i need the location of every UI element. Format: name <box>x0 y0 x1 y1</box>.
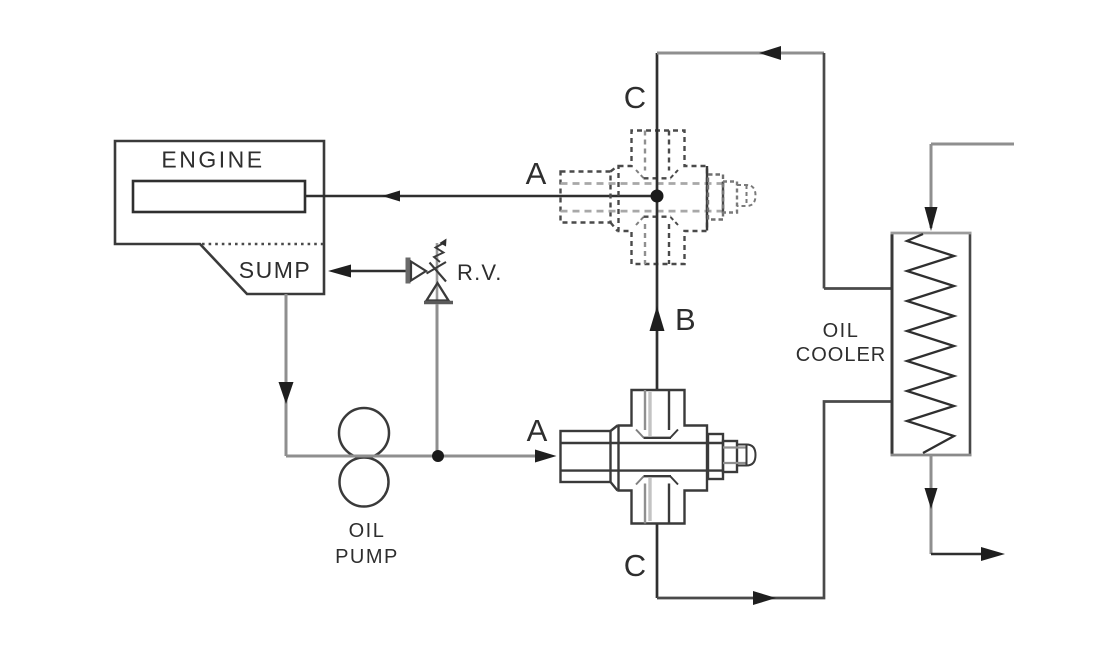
wire coolant inlet <box>931 144 1014 228</box>
thermostat valve (solid, lower position) <box>561 390 756 524</box>
wire relief valve drain down to pump line <box>436 304 439 456</box>
oil gallery rectangle <box>133 181 305 212</box>
engine block outline <box>115 141 324 294</box>
thermostat valve (phantom/dashed, upper position) <box>561 131 756 265</box>
wire gallery to thermostat A (y=196) <box>305 195 651 198</box>
bottom arm sleeve tube <box>644 484 646 524</box>
thermostat element: dome cap <box>737 445 756 466</box>
central passage lines (grey dashed) <box>561 184 724 212</box>
svg-text:A: A <box>526 156 547 191</box>
svg-text:R.V.: R.V. <box>457 260 503 285</box>
body right edge (solid) <box>706 166 708 231</box>
relief valve R.V. <box>406 239 454 303</box>
central A-passage lines <box>561 443 724 471</box>
wire pump suction/discharge (y=456) <box>286 455 538 458</box>
cooler coil zigzag <box>907 234 954 453</box>
svg-text:OIL: OIL <box>349 520 386 542</box>
engine/sump dotted divider <box>202 243 324 245</box>
left port A fitting (dashed) <box>561 172 611 223</box>
valve body with top and bottom arms <box>619 390 708 524</box>
wire relief valve stem (behind symbol) <box>436 243 439 304</box>
wire below valve to bottom loop <box>656 525 659 599</box>
arrow into valve port A <box>535 450 557 463</box>
thermostat element: flange ring <box>708 434 723 479</box>
thermostat element: passage lines <box>723 448 747 464</box>
thermostat element: middle ring <box>723 441 737 472</box>
arrow B upward <box>650 306 665 331</box>
svg-text:ENGINE: ENGINE <box>161 147 264 173</box>
hidden wire in bottom arm <box>648 478 651 521</box>
wire bottom loop: valve C to cooler <box>657 402 891 599</box>
junction node pump/relief <box>432 450 444 462</box>
thermostat element rings (dashed grey) <box>708 175 723 220</box>
svg-text:C: C <box>624 548 646 583</box>
wire valve vertical C-B (x=657) <box>656 53 659 389</box>
wire relief valve to sump (y=271) <box>350 270 406 273</box>
valve body (dashed) <box>619 131 708 265</box>
hidden wire in top arm <box>648 392 651 436</box>
bottom arm sleeve tube (dashed) <box>644 224 646 264</box>
svg-text:OIL: OIL <box>823 320 860 342</box>
junction node at phantom valve <box>651 190 664 203</box>
svg-text:PUMP: PUMP <box>335 546 399 568</box>
oil pump gear circles <box>339 408 389 458</box>
top arm sleeve tube <box>644 390 646 430</box>
svg-text:C: C <box>624 80 646 115</box>
oil cooler shell <box>892 233 970 455</box>
svg-text:COOLER: COOLER <box>796 344 886 366</box>
svg-text:SUMP: SUMP <box>239 257 311 283</box>
arrow to engine <box>382 191 400 202</box>
arrow into sump <box>328 265 351 278</box>
left port A fitting <box>561 431 611 482</box>
top arm sleeve tube (dashed) <box>644 131 646 171</box>
svg-text:B: B <box>675 302 696 337</box>
wire sump drain to pump <box>285 294 288 456</box>
wire top loop: cooler to valve C <box>657 52 824 55</box>
svg-text:A: A <box>527 413 548 448</box>
wire coolant outlet <box>930 455 933 554</box>
